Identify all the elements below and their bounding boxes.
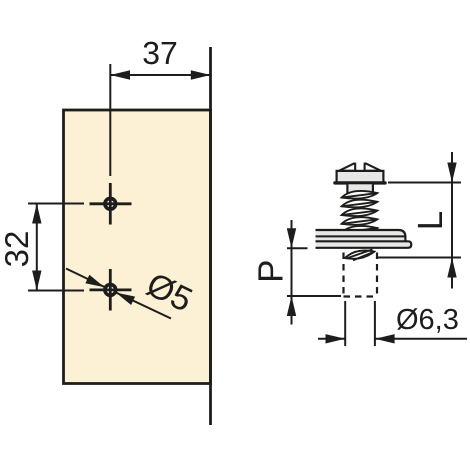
dim P: dimension line bbox=[291, 220, 293, 325]
dim 32: bottom extension tick bbox=[28, 290, 84, 292]
mounting plate (beige panel) bbox=[64, 110, 211, 384]
svg-text:P: P bbox=[251, 260, 290, 283]
svg-text:32: 32 bbox=[0, 231, 35, 268]
hole 2 cross bbox=[109, 269, 112, 311]
hole 2 circle bbox=[105, 285, 116, 296]
screw neck bbox=[347, 184, 373, 193]
panel edge vertical line bbox=[209, 47, 212, 425]
dim 32: dimension line bbox=[36, 204, 38, 291]
dia5 arrow lower-right bbox=[116, 293, 135, 305]
dashed hidden hole: bottom bbox=[344, 295, 378, 297]
dim 6,3: left extension line bbox=[344, 301, 346, 346]
svg-text:L: L bbox=[411, 211, 450, 230]
dia5 leader line lower segment bbox=[116, 293, 171, 319]
washer mid line bbox=[316, 235, 406, 237]
dim 6,3: left dimension line + arrow bbox=[318, 338, 345, 340]
dim L: top tick bbox=[388, 182, 461, 184]
dashed hidden hole: left bbox=[342, 253, 344, 298]
dim P: top arrow (points down) bbox=[287, 228, 296, 248]
dashed hidden hole: right bbox=[376, 253, 378, 298]
dim 32: top arrow bbox=[32, 204, 41, 224]
dim 6,3: right dimension line + arrow bbox=[375, 338, 467, 340]
svg-text:Ø6,3: Ø6,3 bbox=[396, 304, 459, 336]
dim 32: bottom arrow bbox=[32, 271, 41, 291]
screw head bottom edge bbox=[335, 181, 385, 184]
screw tip coil below washer (drawn before washer) bbox=[345, 250, 374, 258]
dim L: bottom tick bbox=[378, 257, 461, 259]
hole 1 cross bbox=[109, 183, 112, 225]
screw head slot ear left bbox=[339, 164, 355, 171]
washer lip plate bbox=[316, 241, 412, 248]
dim L: dimension line bbox=[451, 152, 453, 289]
dim 37: right arrow bbox=[191, 70, 211, 79]
washer main plate bbox=[316, 230, 406, 241]
dia5 leader line upper segment bbox=[66, 269, 105, 288]
dim 37: dimension line bbox=[110, 74, 210, 76]
thread wraps: outlines bbox=[342, 191, 378, 234]
dim L: bottom arrow (points up) bbox=[447, 258, 456, 278]
dim 6,3: right extension line bbox=[374, 301, 376, 346]
hole 1 circle bbox=[105, 198, 116, 209]
dim L: top arrow (points down) bbox=[447, 163, 456, 183]
screw head slot ear right bbox=[365, 164, 381, 171]
thread helix crest lines bbox=[342, 193, 378, 233]
dim 32: top extension tick bbox=[28, 203, 84, 205]
dim P: bottom arrow (points up) bbox=[287, 296, 296, 316]
dim P: top tick bbox=[287, 247, 308, 249]
thread wraps: white fills bbox=[342, 191, 378, 234]
dim P: bottom tick bbox=[287, 295, 341, 297]
svg-text:37: 37 bbox=[142, 35, 178, 71]
dia5 arrow upper-left bbox=[85, 275, 104, 287]
screw head body bbox=[337, 171, 384, 183]
tip coil outlines bbox=[345, 249, 374, 260]
dim 37: extension line bbox=[109, 64, 111, 176]
dim 37: left arrow bbox=[110, 70, 130, 79]
